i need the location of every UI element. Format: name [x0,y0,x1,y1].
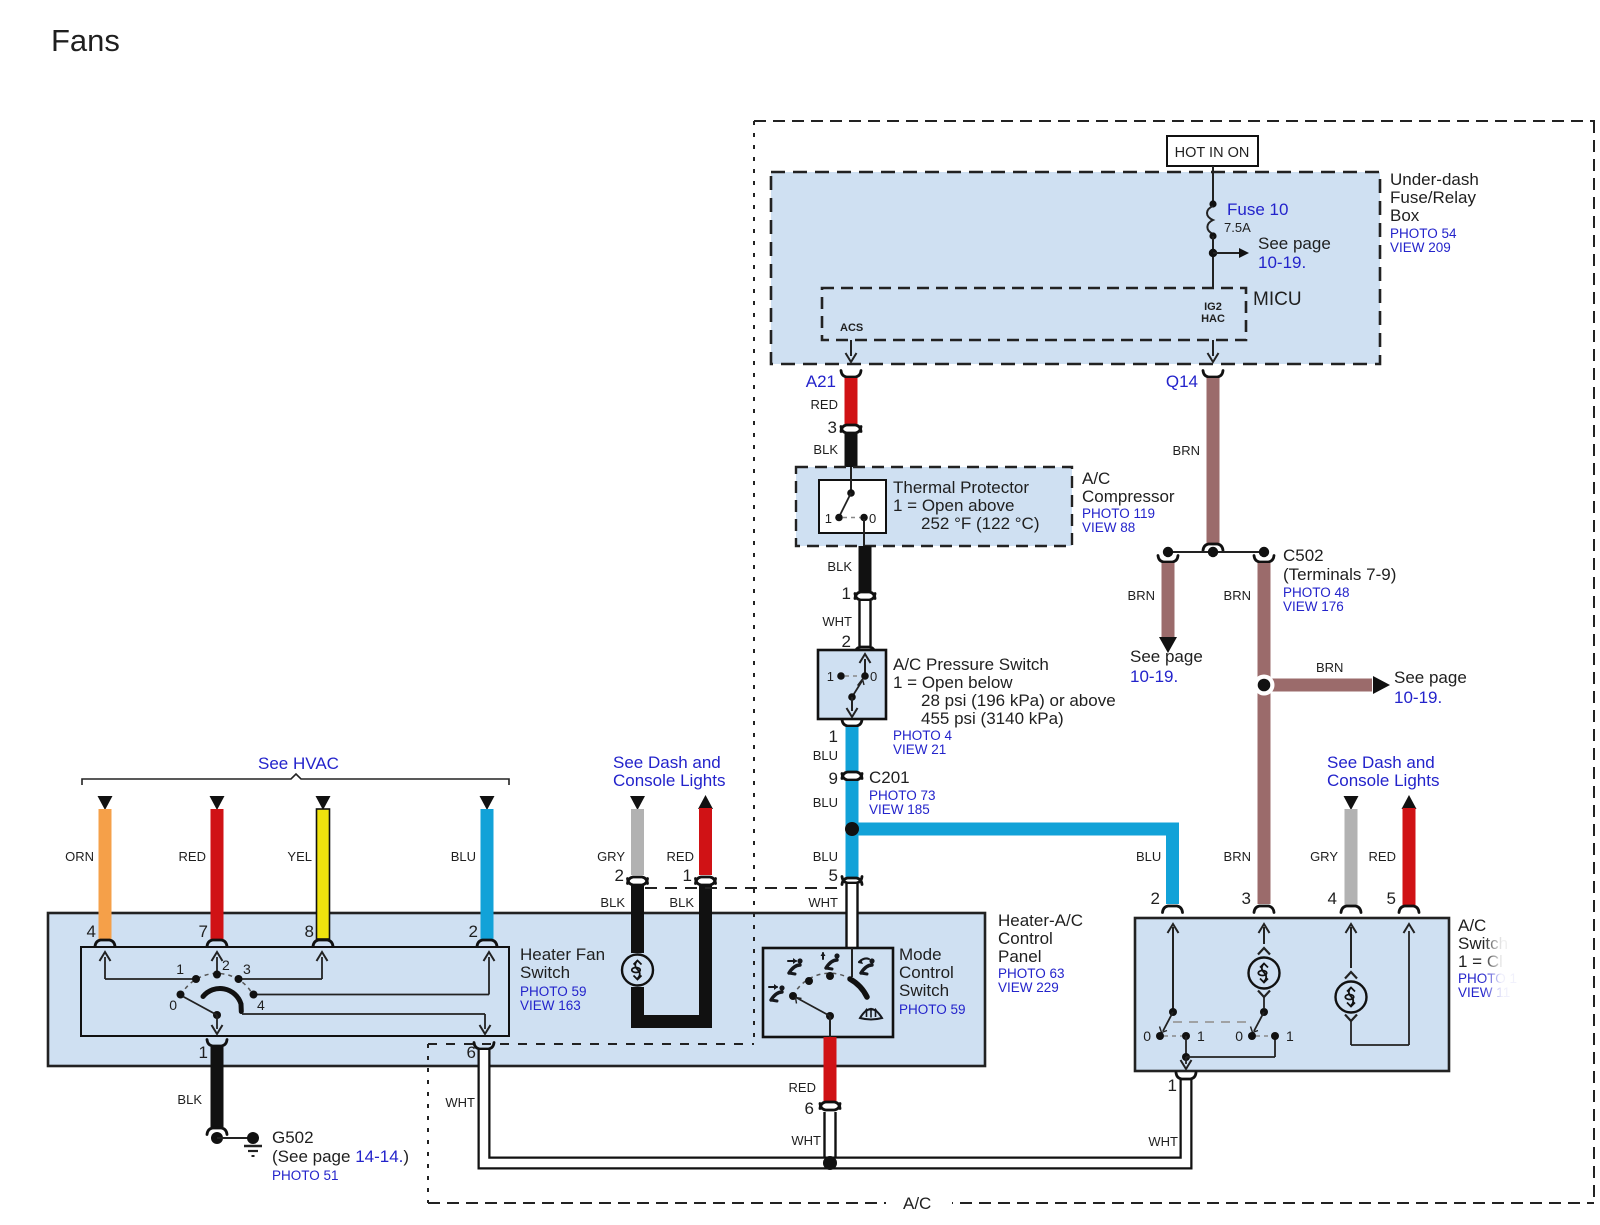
svg-text:2: 2 [469,922,478,941]
arrow out of RED wire [698,795,713,809]
wire WHT pin6 run to A/C switch pin1 [484,1050,1186,1163]
svg-text:(See page 14-14.): (See page 14-14.) [272,1147,409,1166]
contact dots [177,991,185,999]
wire contact3 to pin8 [239,978,323,980]
svg-text:MICU: MICU [1253,289,1302,310]
connector RED/BLK [696,877,716,884]
svg-text:Control: Control [899,963,954,982]
svg-text:A/C Pressure Switch: A/C Pressure Switch [893,655,1049,674]
fuse Fuse 10 7.5A [1207,200,1288,240]
label Mode Control Switch [899,945,966,1017]
svg-text:See page: See page [1394,668,1467,687]
wiper bold arc to pin6 feed [203,988,241,1011]
svg-text:BRN: BRN [1316,660,1343,675]
svg-text:VIEW 163: VIEW 163 [520,998,581,1013]
svg-text:4: 4 [1328,889,1337,908]
svg-text:C201: C201 [869,768,910,787]
svg-text:Box: Box [1390,206,1420,225]
label Heater Fan Switch [520,945,605,1013]
wire contact2 to pin7 [216,957,218,974]
label A/C Switch (clipped) [1458,916,1517,1000]
svg-text:PHOTO 73: PHOTO 73 [869,788,936,803]
wire BLU horizontal to A/C switch pin2 [852,829,1173,904]
svg-text:6: 6 [467,1043,476,1062]
label A/C Pressure Switch [893,655,1116,757]
wire contact1 to pin4 [105,978,196,980]
svg-text:1 = Open above: 1 = Open above [893,496,1014,515]
connector A/C switch pin3 [1254,906,1274,913]
svg-text:Switch: Switch [520,963,570,982]
label Under-dash Fuse/Relay Box [1390,170,1479,255]
svg-text:5: 5 [1387,889,1396,908]
wire BRN Q14 down [1207,378,1220,545]
A/C switch internals [1143,924,1414,1069]
connector BRN to C502 rail [1203,544,1223,551]
wire BLU below pressure switch [846,727,859,771]
label See Dash and Console Lights (left) [613,753,725,790]
label Thermal Protector [893,478,1039,533]
connector right BRN branch [1254,556,1274,563]
svg-text:PHOTO 59: PHOTO 59 [899,1002,966,1017]
svg-text:BLK: BLK [827,559,852,574]
svg-text:1: 1 [199,1043,208,1062]
svg-text:3: 3 [1242,889,1251,908]
svg-text:See Dash and: See Dash and [613,753,721,772]
svg-text:1: 1 [827,669,834,684]
svg-text:PHOTO 54: PHOTO 54 [1390,226,1457,241]
svg-text:ACS: ACS [840,322,863,334]
svg-text:1: 1 [683,866,692,885]
svg-text:10-19.: 10-19. [1394,688,1442,707]
connector heater pin1 [207,1040,227,1047]
svg-text:HAC: HAC [1201,313,1225,325]
A/C dashed region boundary top [754,120,1595,122]
A/C dashed region left lower [427,1044,429,1203]
svg-text:WHT: WHT [791,1133,821,1148]
lamp A/C indicator (pin3) [1263,927,1265,944]
connector RED/WHT mode [820,1102,840,1109]
junction dots on C502 rail [1163,547,1173,557]
arrow into YEL wire [316,796,331,810]
svg-text:G502: G502 [272,1128,314,1147]
svg-text:VIEW 229: VIEW 229 [998,980,1059,995]
lamp A/C illumination (pin4-pin5) [1350,927,1352,968]
svg-text:BLK: BLK [669,895,694,910]
wire BLU junction to pin5 [846,829,859,877]
label see page 10-19 (right) [1394,668,1467,707]
ground G502 [211,1132,262,1156]
svg-text:YEL: YEL [287,849,312,864]
label See Dash and Console Lights (right) [1327,753,1439,790]
svg-text:Console Lights: Console Lights [1327,771,1439,790]
mode icon bi-level [821,952,840,969]
svg-text:2: 2 [222,957,230,973]
wire BLK to thermal protector [845,434,858,467]
connector C201 [842,772,862,779]
svg-text:RED: RED [811,397,838,412]
svg-text:BLK: BLK [177,1092,202,1107]
heater fan rotary switch [100,952,495,1034]
svg-text:BLU: BLU [813,748,838,763]
svg-text:RED: RED [1369,849,1396,864]
svg-text:BLK: BLK [600,895,625,910]
junction dot below fuse [1209,249,1217,257]
wire from HOT IN ON to fuse [1212,166,1214,204]
svg-text:VIEW 21: VIEW 21 [893,742,946,757]
arrow into ORN wire [98,796,113,810]
svg-text:See page: See page [1130,647,1203,666]
svg-text:Console Lights: Console Lights [613,771,725,790]
connector pressure/BLU [842,720,862,727]
connector BLK/WHT junction [855,592,875,599]
svg-text:Mode: Mode [899,945,942,964]
svg-text:BLU: BLU [813,795,838,810]
svg-text:1: 1 [1197,1028,1205,1044]
wire YEL [317,809,330,939]
wire BLK heater pin1 to ground [211,1047,224,1127]
svg-text:BRN: BRN [1128,588,1155,603]
svg-text:PHOTO 59: PHOTO 59 [520,984,587,999]
arrow into BLU wire [480,796,495,810]
dashed contact arc [181,973,254,995]
svg-text:3: 3 [828,418,837,437]
arrow see page 10-19 (left BRN) [1159,637,1177,653]
arrow out of RED wire (A/C) [1402,795,1417,809]
MICU dashed box [822,288,1246,340]
svg-text:455 psi (3140 kPa): 455 psi (3140 kPa) [921,709,1064,728]
arrow into GRY wire (A/C) [1344,796,1359,810]
connector pin5 [842,878,862,885]
svg-text:6: 6 [805,1099,814,1118]
A/C switch box [1135,918,1449,1071]
arrow ACS to A21 [846,340,857,362]
svg-text:A/C: A/C [1458,916,1486,935]
svg-text:VIEW 88: VIEW 88 [1082,520,1135,535]
svg-text:1 = Open below: 1 = Open below [893,673,1013,692]
svg-text:9: 9 [829,769,838,788]
thermal protector dashed box (A/C compressor) [796,467,1072,546]
svg-text:WHT: WHT [1148,1134,1178,1149]
label G502 [272,1128,409,1183]
svg-text:0: 0 [1143,1028,1151,1044]
connector A/C pin5 [1399,906,1419,913]
wire C502 rail [1168,551,1264,553]
svg-text:A/C: A/C [903,1194,931,1213]
pin2 arrow and switch1 [1172,927,1174,1010]
arrow into RED wire [210,796,225,810]
svg-text:PHOTO 48: PHOTO 48 [1283,585,1350,600]
svg-text:See Dash and: See Dash and [1327,753,1435,772]
connector A/C pin4 [1341,906,1361,913]
svg-text:BLK: BLK [813,442,838,457]
wire WHT mode to junction [825,1112,836,1163]
junction to pin1 [1185,1036,1187,1057]
svg-text:1: 1 [176,961,184,977]
A/C dashed region boundary bottom [428,1202,1594,1204]
svg-text:IG2: IG2 [1204,301,1222,313]
connector YEL pin8 [313,940,333,947]
svg-text:VIEW 176: VIEW 176 [1283,599,1344,614]
pressure switch contacts [827,654,877,717]
wire ORN [99,809,112,939]
HOT IN ON box [1167,136,1258,166]
svg-text:28 psi (196 kPa) or above: 28 psi (196 kPa) or above [921,691,1116,710]
mode icon foot [769,984,785,1001]
mode control switch box [763,948,893,1037]
wire WHT pin5 into mode switch [847,884,858,948]
connector left BRN branch [1158,556,1178,563]
svg-text:2: 2 [842,632,851,651]
lamp heater illumination [622,955,653,986]
svg-text:BRN: BRN [1224,588,1251,603]
svg-text:Compressor: Compressor [1082,487,1175,506]
svg-text:RED: RED [789,1080,816,1095]
svg-text:2: 2 [1151,889,1160,908]
svg-text:BLU: BLU [1136,849,1161,864]
label C201 [869,768,936,817]
svg-text:5: 5 [829,866,838,885]
label Heater-A/C Control Panel [998,911,1083,995]
wire BLK lamp loop [638,886,706,1022]
svg-text:PHOTO 119: PHOTO 119 [1082,506,1155,521]
wire BLU heater pin2 [481,809,494,939]
svg-text:Control: Control [998,929,1053,948]
connector heater pin6 [474,1043,494,1050]
svg-text:Thermal Protector: Thermal Protector [893,478,1029,497]
svg-text:C502: C502 [1283,546,1324,565]
svg-text:PHOTO 63: PHOTO 63 [998,966,1065,981]
A/C dashed region boundary left upper [753,121,755,1044]
svg-text:RED: RED [667,849,694,864]
svg-text:Switch: Switch [899,981,949,1000]
wire GRY A/C pin4 [1345,809,1358,905]
connector BLU pin2 [477,940,497,947]
svg-text:BRN: BRN [1224,849,1251,864]
svg-text:VIEW 209: VIEW 209 [1390,240,1451,255]
pin label IG2 HAC [1201,301,1225,325]
junction node WHT tee [823,1156,837,1170]
connector at A21 [841,371,861,378]
svg-text:See page: See page [1258,234,1331,253]
svg-text:BLU: BLU [813,849,838,864]
wire RED A/C pin5 [1403,808,1416,905]
thermal protector inner box [819,480,886,533]
wire RED A21 pin3 [845,378,858,424]
wire BRN horizontal to see page [1264,679,1372,692]
thermal protector switch [825,467,876,546]
arrow IG2 to Q14 [1208,340,1219,362]
Heater-A/C control panel box [48,913,985,1066]
A/C pressure switch box [818,650,886,719]
svg-text:WHT: WHT [808,895,838,910]
wire contact4 to pin2 [254,994,490,996]
svg-text:0: 0 [169,997,177,1013]
svg-text:Heater-A/C: Heater-A/C [998,911,1083,930]
mode icon face vent [788,958,803,974]
wire BLK thermal to pressure [859,546,872,591]
wire GRY dash lights [631,809,644,875]
mechanical link dashes [1173,1021,1253,1023]
connector ORN pin4 [95,940,115,947]
A/C dashed region branch at pin5 [645,887,843,889]
connector A/C pin1 [1176,1073,1196,1080]
Under-dash Fuse/Relay Box [771,172,1380,364]
svg-text:Heater Fan: Heater Fan [520,945,605,964]
wire fuse to MICU [1212,236,1214,288]
connector GRY/BLK [628,877,648,884]
connector RED/BLK junction [841,425,861,432]
svg-text:4: 4 [257,997,265,1013]
svg-text:0: 0 [869,511,876,526]
mode switch contacts [789,948,867,1037]
wire RED heater pin7 [211,809,224,939]
connector WHT/pressure junction [855,647,875,654]
svg-text:1: 1 [1286,1028,1294,1044]
svg-text:VIEW 185: VIEW 185 [869,802,930,817]
wire RED mode pin6 [824,1037,837,1101]
svg-text:3: 3 [243,961,251,977]
A/C region label [886,1192,952,1213]
label A/C Compressor [1082,469,1175,535]
svg-text:4: 4 [87,922,96,941]
svg-text:10-19.: 10-19. [1130,667,1178,686]
svg-text:PHOTO 51: PHOTO 51 [272,1168,339,1183]
mode icon defrost [860,1008,882,1020]
svg-text:Fuse 10: Fuse 10 [1227,200,1288,219]
svg-text:A21: A21 [806,372,836,391]
connector RED pin7 [207,940,227,947]
svg-text:ORN: ORN [65,849,94,864]
wire BLU C201 to junction [846,781,859,829]
label C502 (Terminals 7-9) [1283,546,1396,614]
svg-text:0: 0 [870,669,877,684]
svg-text:8: 8 [305,922,314,941]
svg-text:2: 2 [615,866,624,885]
svg-text:Under-dash: Under-dash [1390,170,1479,189]
svg-text:Fans: Fans [51,23,120,58]
svg-text:GRY: GRY [1310,849,1338,864]
svg-text:HOT IN ON: HOT IN ON [1175,145,1250,161]
svg-text:WHT: WHT [445,1095,475,1110]
svg-text:1: 1 [842,584,851,603]
svg-text:BRN: BRN [1173,443,1200,458]
svg-text:See HVAC: See HVAC [258,754,339,773]
mode icon heat-defrost [858,958,875,974]
svg-text:0: 0 [1235,1028,1243,1044]
A/C dashed region mid horizontal [428,1043,754,1045]
heater fan switch inner box [81,947,509,1036]
svg-text:GRY: GRY [597,849,625,864]
bracket See HVAC [82,774,509,785]
svg-text:252 °F (122 °C): 252 °F (122 °C) [921,514,1039,533]
svg-text:1: 1 [825,511,832,526]
svg-text:A/C: A/C [1082,469,1110,488]
svg-text:1: 1 [1168,1076,1177,1095]
wire WHT to pressure switch [860,601,871,646]
svg-text:RED: RED [179,849,206,864]
svg-text:BLU: BLU [451,849,476,864]
pivot and arm to 0 [213,1011,221,1019]
A/C dashed region boundary right [1593,121,1595,1203]
wire RED dash lights [699,808,712,875]
wire BRN left branch [1162,563,1175,637]
connector A/C switch pin2 [1163,906,1183,913]
svg-text:WHT: WHT [822,614,852,629]
svg-text:7: 7 [199,922,208,941]
svg-text:Fuse/Relay: Fuse/Relay [1390,188,1476,207]
see page 10-19 arrow (fuse) [1213,234,1331,272]
svg-text:Panel: Panel [998,947,1041,966]
svg-text:(Terminals 7-9): (Terminals 7-9) [1283,565,1396,584]
svg-text:10-19.: 10-19. [1258,253,1306,272]
svg-text:7.5A: 7.5A [1224,220,1251,235]
switch2 [1260,1008,1268,1016]
svg-text:Q14: Q14 [1166,372,1198,391]
junction node BLU tee [845,822,859,836]
wire BRN right branch down to A/C switch pin3 [1258,563,1271,904]
arrow into GRY wire [630,796,645,810]
connector at Q14 [1203,371,1223,378]
junction node BRN (ring) [1254,675,1275,696]
svg-text:1: 1 [829,727,838,746]
svg-text:PHOTO 4: PHOTO 4 [893,728,953,743]
